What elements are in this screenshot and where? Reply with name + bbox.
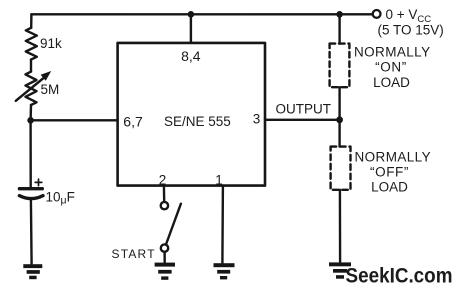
node junction pin 8,4 at rail: [188, 11, 195, 18]
svg-text:91k: 91k: [40, 36, 62, 51]
svg-text:NORMALLY: NORMALLY: [354, 45, 430, 60]
wire load2 to ground: [339, 190, 342, 262]
wire pin 2: [163, 186, 166, 202]
wire top rail: [31, 13, 372, 15]
wire pin 1 to ground: [221, 186, 224, 263]
svg-text:SeekIC.com: SeekIC.com: [346, 264, 453, 288]
ground G4 right: [329, 262, 351, 278]
svg-text:6,7: 6,7: [123, 114, 143, 130]
potentiometer 5M zigzag: [26, 72, 37, 105]
node A junction left: [27, 117, 34, 124]
ground G2 under switch: [155, 263, 175, 280]
wire load1 to output node: [338, 87, 340, 146]
wire rail to load1: [338, 14, 340, 43]
ground G1 left: [23, 264, 42, 279]
potentiometer arrow head: [41, 71, 52, 81]
capacitor plus sign: [35, 179, 42, 186]
svg-text:3: 3: [253, 111, 261, 126]
capacitor C 10uF bottom plate: [19, 196, 43, 199]
capacitor C 10uF top plate: [19, 187, 42, 190]
wire left vertical top segment: [30, 14, 33, 27]
svg-text:“OFF”: “OFF”: [370, 165, 409, 180]
wire pot to node A: [29, 105, 32, 120]
switch upper contact circle: [161, 202, 168, 209]
load1 dashed box NORMALLY ON LOAD: [330, 44, 350, 88]
node junction output: [336, 116, 343, 123]
ground G3 under pin 1: [214, 263, 235, 279]
wire node A to capacitor: [29, 120, 32, 187]
wire pin 3 output: [265, 119, 340, 121]
svg-text:OUTPUT: OUTPUT: [276, 102, 332, 117]
node junction load branch at rail: [336, 11, 343, 18]
load2 dashed box NORMALLY OFF LOAD: [331, 147, 351, 190]
svg-text:8,4: 8,4: [181, 48, 201, 64]
resistor 91k zigzag: [26, 28, 37, 60]
potentiometer 5M arrow shaft: [16, 77, 45, 101]
wire pin 8,4 to rail: [190, 14, 192, 43]
wire between resistor and potentiometer: [30, 60, 32, 72]
svg-text:2: 2: [159, 172, 167, 187]
svg-text:LOAD: LOAD: [371, 180, 408, 195]
svg-text:1: 1: [215, 172, 223, 187]
svg-text:NORMALLY: NORMALLY: [355, 150, 431, 165]
svg-text:(5 TO 15V): (5 TO 15V): [378, 23, 444, 38]
wire pin 6,7: [31, 119, 118, 121]
svg-text:START: START: [112, 247, 156, 261]
svg-text:“ON”: “ON”: [375, 60, 407, 75]
svg-text:LOAD: LOAD: [373, 75, 410, 90]
svg-text:10μF: 10μF: [46, 190, 75, 207]
switch lower contact circle: [161, 244, 168, 251]
svg-text:5M: 5M: [41, 82, 60, 97]
wire capacitor to ground: [30, 200, 33, 264]
op IC U1 SE/NE 555 box: [118, 43, 265, 186]
terminal Vcc circle: [373, 10, 381, 18]
svg-text:SE/NE 555: SE/NE 555: [164, 114, 231, 129]
switch blade: [166, 204, 181, 244]
wire switch to ground: [163, 252, 165, 262]
